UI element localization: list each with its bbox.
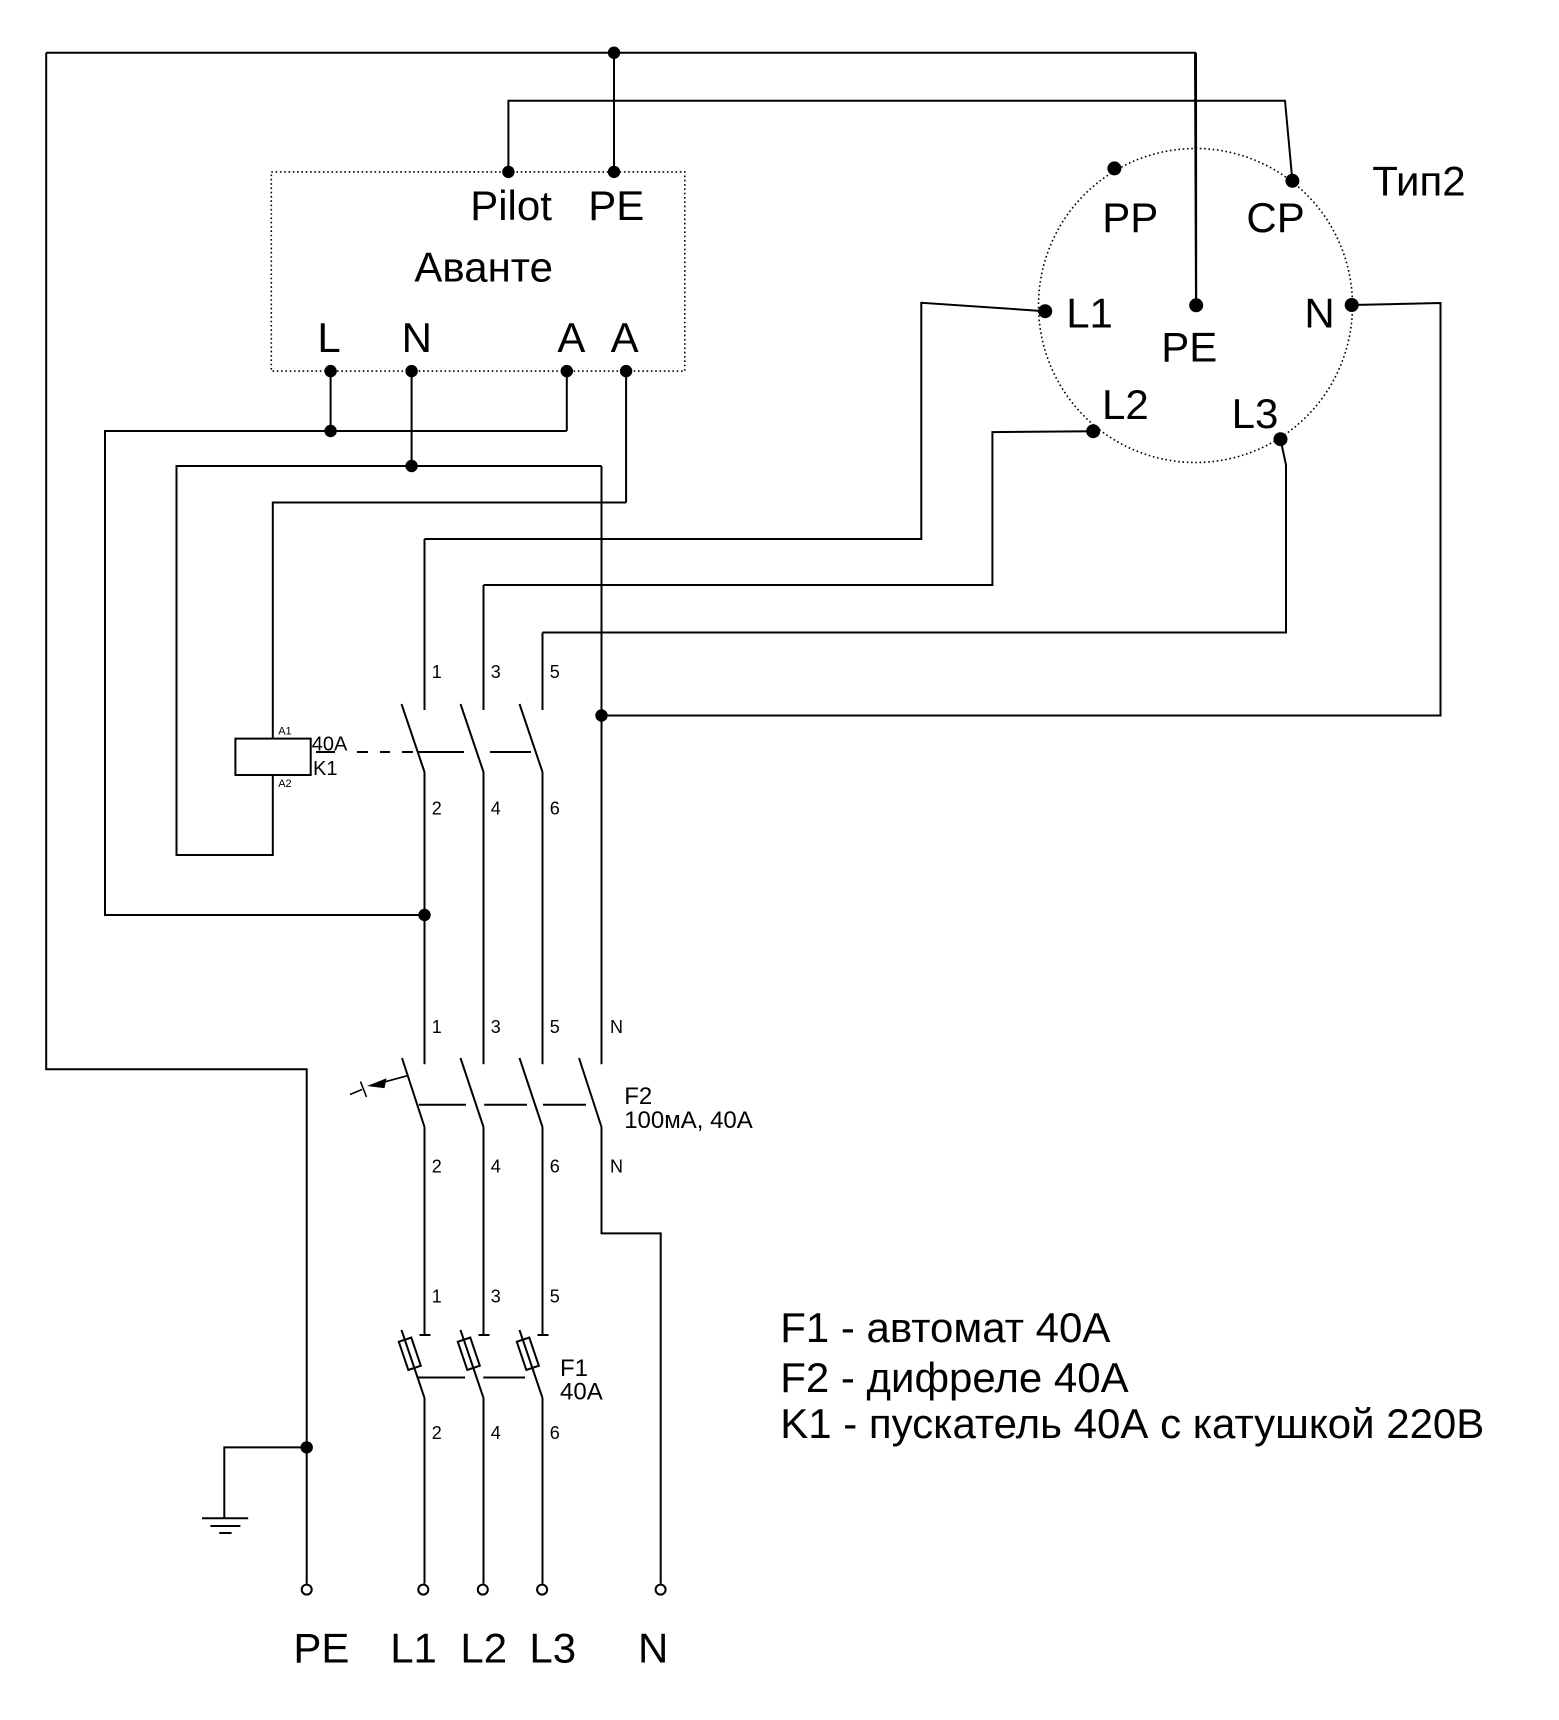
- pole 1: [424, 539, 426, 710]
- svg-text:A: A: [611, 314, 639, 361]
- svg-text:K1: K1: [313, 758, 337, 780]
- svg-text:A: A: [557, 314, 585, 361]
- wire A terminal drop: [566, 371, 568, 431]
- junction node N: [405, 460, 417, 472]
- svg-text:K1 - пускатель 40А с катушкой: K1 - пускатель 40А с катушкой 220В: [780, 1400, 1484, 1447]
- svg-text:L2: L2: [1102, 381, 1149, 428]
- wire PE top bus: [46, 53, 1196, 306]
- wire N terminal drop: [411, 371, 413, 466]
- junction N branch: [595, 709, 607, 721]
- svg-text:PE: PE: [588, 182, 644, 229]
- svg-text:6: 6: [550, 1157, 560, 1177]
- pin Pilot of charger: [502, 166, 514, 178]
- breaker F1 poles: [399, 1330, 549, 1584]
- svg-text:N: N: [402, 314, 432, 361]
- contactor K1 poles: [316, 539, 543, 1064]
- wire N vertical to F2: [601, 466, 603, 1064]
- K1 linkage dashed: [316, 751, 335, 753]
- wire ground branch: [224, 1447, 306, 1518]
- pin A2 of charger: [620, 365, 632, 377]
- wire coil A1 to A terminal: [273, 503, 626, 739]
- pole N: [579, 1058, 602, 1127]
- RCD F2 test arrow: [350, 1076, 407, 1097]
- pole 1: [420, 1334, 431, 1336]
- svg-text:PE: PE: [1161, 324, 1217, 371]
- wire A2 terminal drop: [625, 371, 627, 502]
- pole 5: [542, 633, 544, 711]
- junction PE ground tap: [301, 1441, 313, 1453]
- svg-text:5: 5: [550, 1017, 560, 1037]
- svg-text:1: 1: [432, 1017, 442, 1037]
- svg-text:PP: PP: [1102, 194, 1158, 241]
- pin N of connector: [1345, 298, 1359, 312]
- svg-text:PE: PE: [293, 1624, 349, 1671]
- connector circle Тип2 (dotted): [1039, 149, 1353, 463]
- svg-text:3: 3: [491, 1287, 501, 1307]
- svg-text:3: 3: [491, 1017, 501, 1037]
- svg-text:Тип2: Тип2: [1372, 158, 1465, 205]
- wire node N bus: [177, 466, 602, 855]
- svg-text:Аванте: Аванте: [414, 243, 553, 290]
- svg-text:N: N: [610, 1157, 623, 1177]
- svg-text:100мА, 40А: 100мА, 40А: [624, 1107, 753, 1134]
- svg-text:1: 1: [432, 662, 442, 682]
- svg-text:Pilot: Pilot: [470, 182, 552, 229]
- pole 1: [402, 1058, 425, 1127]
- pin PE of charger: [608, 166, 620, 178]
- svg-text:F2: F2: [624, 1083, 652, 1110]
- svg-text:L1: L1: [1066, 290, 1113, 337]
- svg-text:40A: 40A: [312, 734, 348, 756]
- wire phase2 to L2: [484, 431, 1094, 585]
- pin L1 of connector: [1038, 304, 1052, 318]
- pin N of charger: [405, 365, 417, 377]
- svg-text:5: 5: [550, 662, 560, 682]
- junction L bus to K1 pole 2: [418, 909, 430, 921]
- pole 3: [483, 585, 485, 710]
- svg-text:L1: L1: [390, 1624, 437, 1671]
- ground: [202, 1518, 248, 1533]
- svg-text:F2 - дифреле 40А: F2 - дифреле 40А: [780, 1354, 1128, 1401]
- svg-text:1: 1: [432, 1287, 442, 1307]
- charger box Аванте (dotted): [271, 172, 685, 371]
- svg-text:N: N: [638, 1624, 668, 1671]
- wire PE left frame down to PE terminal: [46, 53, 307, 1584]
- svg-text:N: N: [610, 1017, 623, 1037]
- contactor K1 coil: [235, 739, 310, 775]
- svg-text:L2: L2: [460, 1624, 507, 1671]
- wire Pilot to CP: [508, 101, 1292, 181]
- wire L terminal drop: [330, 371, 332, 431]
- svg-text:A2: A2: [278, 778, 291, 790]
- pole 3: [461, 1058, 484, 1127]
- svg-text:A1: A1: [278, 725, 291, 737]
- svg-text:CP: CP: [1246, 194, 1304, 241]
- F2 linkage: [419, 1104, 466, 1106]
- wire PE connector drop: [1195, 53, 1197, 306]
- pole 3: [479, 1334, 490, 1336]
- pin L of charger: [324, 365, 336, 377]
- junction PE top bus: [608, 47, 620, 59]
- pin L2 of connector: [1086, 424, 1100, 438]
- terminal L1: [418, 1585, 428, 1595]
- RCD F2 poles: [402, 1058, 661, 1584]
- pin A1 of charger: [561, 365, 573, 377]
- svg-text:4: 4: [491, 799, 501, 819]
- terminal L2: [478, 1585, 488, 1595]
- svg-text:L3: L3: [529, 1624, 576, 1671]
- terminal PE: [302, 1585, 312, 1595]
- svg-text:4: 4: [491, 1423, 501, 1443]
- pole 5: [520, 1058, 543, 1127]
- svg-text:5: 5: [550, 1287, 560, 1307]
- wire phase3 to L3: [543, 439, 1287, 632]
- terminal L3: [537, 1585, 547, 1595]
- pin PP of connector: [1107, 161, 1121, 175]
- wire PE drop to charger box: [613, 53, 615, 172]
- pin CP of connector: [1285, 174, 1299, 188]
- svg-text:6: 6: [550, 1423, 560, 1443]
- svg-text:4: 4: [491, 1157, 501, 1177]
- wire N branch to connector: [602, 303, 1441, 716]
- svg-text:2: 2: [432, 1157, 442, 1177]
- pin L3 of connector: [1274, 432, 1288, 446]
- svg-text:2: 2: [432, 799, 442, 819]
- svg-text:L: L: [317, 314, 340, 361]
- pole 5: [538, 1334, 549, 1336]
- svg-text:N: N: [1304, 290, 1334, 337]
- svg-text:F1 - автомат 40А: F1 - автомат 40А: [780, 1304, 1110, 1351]
- pin PE of connector: [1189, 298, 1203, 312]
- wire node L bus: [105, 431, 567, 915]
- svg-text:L3: L3: [1232, 390, 1279, 437]
- terminal N: [656, 1585, 666, 1595]
- wire phase1 to L1: [425, 303, 1046, 539]
- F1 linkage: [418, 1377, 465, 1379]
- svg-text:2: 2: [432, 1423, 442, 1443]
- junction node L: [324, 425, 336, 437]
- svg-text:6: 6: [550, 799, 560, 819]
- svg-text:40A: 40A: [560, 1379, 603, 1406]
- svg-text:3: 3: [491, 662, 501, 682]
